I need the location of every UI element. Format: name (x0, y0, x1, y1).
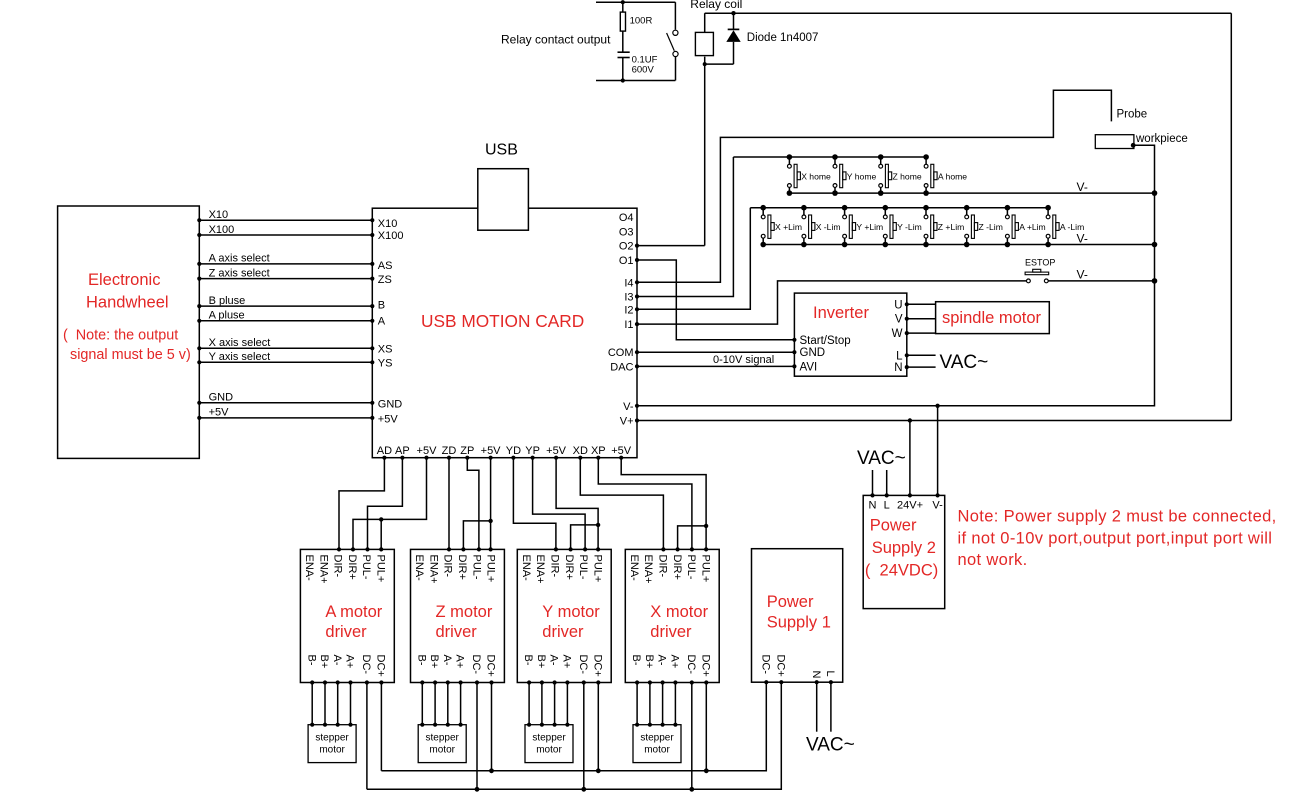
svg-text:O4: O4 (619, 212, 634, 224)
svg-text:X motor: X motor (650, 603, 708, 621)
svg-text:I4: I4 (624, 277, 633, 289)
svg-text:V-: V- (932, 500, 943, 512)
svg-text:Power: Power (767, 593, 814, 611)
svg-text:YS: YS (378, 357, 393, 369)
svg-text:DIR-: DIR- (657, 555, 669, 578)
svg-text:I1: I1 (624, 319, 633, 331)
svg-text:B-: B- (522, 655, 534, 666)
svg-text:+5V: +5V (546, 445, 567, 457)
svg-text:A-: A- (441, 655, 453, 666)
svg-text:+5V: +5V (209, 407, 230, 419)
svg-text:100R: 100R (630, 16, 653, 27)
svg-text:V+: V+ (620, 416, 634, 428)
svg-text:Relay coil: Relay coil (690, 0, 742, 11)
svg-text:motor: motor (319, 745, 345, 756)
svg-text:B-: B- (630, 655, 642, 666)
svg-text:Supply 1: Supply 1 (767, 614, 831, 632)
svg-text:VAC~: VAC~ (940, 352, 989, 373)
svg-text:driver: driver (436, 623, 478, 641)
svg-text:V: V (895, 314, 903, 326)
svg-text:ENA-: ENA- (628, 555, 640, 582)
svg-text:B+: B+ (643, 655, 655, 669)
svg-text:PUL-: PUL- (685, 555, 697, 580)
svg-text:( 24VDC): ( 24VDC) (865, 562, 938, 580)
svg-text:PUL-: PUL- (360, 555, 372, 580)
svg-text:motor: motor (429, 745, 455, 756)
svg-text:signal must be 5 v): signal must be 5 v) (70, 347, 191, 363)
svg-text:driver: driver (542, 623, 584, 641)
svg-text:V-: V- (1077, 268, 1088, 282)
svg-text:X10: X10 (378, 218, 398, 230)
svg-text:A-: A- (331, 655, 343, 666)
svg-text:V-: V- (1077, 232, 1088, 246)
svg-text:stepper: stepper (315, 733, 349, 744)
svg-text:A -Lim: A -Lim (1060, 222, 1084, 232)
svg-text:N: N (894, 362, 902, 374)
svg-text:XS: XS (378, 343, 393, 355)
svg-text:Z axis select: Z axis select (209, 267, 270, 279)
svg-text:B+: B+ (428, 655, 440, 669)
svg-text:X -Lim: X -Lim (816, 222, 841, 232)
svg-text:A+: A+ (344, 655, 356, 669)
svg-text:DAC: DAC (610, 361, 633, 373)
svg-text:USB: USB (485, 142, 518, 159)
svg-text:B+: B+ (318, 655, 330, 669)
svg-text:A+: A+ (454, 655, 466, 669)
svg-text:A+: A+ (561, 655, 573, 669)
svg-text:W: W (892, 328, 903, 340)
svg-text:V-: V- (623, 401, 634, 413)
svg-text:YD: YD (506, 445, 521, 457)
svg-text:A axis select: A axis select (209, 253, 270, 265)
svg-text:B pluse: B pluse (209, 295, 246, 307)
svg-text:ZP: ZP (460, 445, 474, 457)
svg-text:B-: B- (305, 655, 317, 666)
svg-text:O2: O2 (619, 241, 634, 253)
svg-text:600V: 600V (632, 65, 655, 76)
svg-text:L: L (824, 671, 836, 677)
svg-text:GND: GND (800, 347, 826, 359)
svg-text:ENA-: ENA- (413, 555, 425, 582)
svg-text:Electronic: Electronic (88, 271, 160, 289)
svg-text:Y home: Y home (847, 171, 877, 181)
svg-text:DIR-: DIR- (549, 555, 561, 578)
svg-text:O1: O1 (619, 255, 634, 267)
svg-text:PUL+: PUL+ (591, 555, 603, 583)
svg-text:I3: I3 (624, 292, 633, 304)
svg-text:Z -Lim: Z -Lim (979, 222, 1003, 232)
svg-text:Probe: Probe (1117, 109, 1148, 121)
svg-text:Inverter: Inverter (813, 304, 869, 322)
svg-text:ZD: ZD (442, 445, 457, 457)
svg-text:X +Lim: X +Lim (775, 222, 802, 232)
svg-text:PUL-: PUL- (577, 555, 589, 580)
svg-text:+5V: +5V (417, 445, 438, 457)
svg-text:DIR+: DIR+ (346, 555, 358, 580)
svg-text:Relay contact output: Relay contact output (501, 33, 611, 47)
svg-text:motor: motor (644, 745, 670, 756)
svg-text:DIR+: DIR+ (563, 555, 575, 580)
svg-text:AS: AS (378, 260, 393, 272)
svg-text:PUL+: PUL+ (699, 555, 711, 583)
svg-text:A-: A- (548, 655, 560, 666)
svg-text:X axis select: X axis select (209, 337, 271, 349)
svg-text:Z +Lim: Z +Lim (938, 222, 965, 232)
svg-text:X100: X100 (378, 230, 404, 242)
svg-text:I2: I2 (624, 304, 633, 316)
svg-text:DC+: DC+ (699, 655, 711, 677)
svg-text:DIR+: DIR+ (456, 555, 468, 580)
svg-text:A +Lim: A +Lim (1019, 222, 1046, 232)
svg-text:+5V: +5V (378, 414, 399, 426)
svg-text:DC+: DC+ (375, 655, 387, 677)
svg-text:ENA+: ENA+ (534, 555, 546, 584)
svg-text:ENA+: ENA+ (642, 555, 654, 584)
svg-text:ENA-: ENA- (303, 555, 315, 582)
svg-text:+5V: +5V (481, 445, 502, 457)
svg-text:Y axis select: Y axis select (209, 351, 271, 363)
svg-text:driver: driver (325, 623, 367, 641)
svg-text:XP: XP (591, 445, 606, 457)
svg-text:Y motor: Y motor (542, 603, 600, 621)
svg-text:X100: X100 (209, 224, 235, 236)
svg-text:ENA+: ENA+ (427, 555, 439, 584)
svg-text:U: U (894, 299, 902, 311)
svg-text:Y -Lim: Y -Lim (897, 222, 922, 232)
svg-text:ESTOP: ESTOP (1025, 258, 1055, 268)
svg-text:AP: AP (395, 445, 410, 457)
svg-text:Diode 1n4007: Diode 1n4007 (747, 32, 819, 44)
svg-text:+5V: +5V (611, 445, 632, 457)
svg-text:USB MOTION CARD: USB MOTION CARD (421, 311, 584, 331)
svg-text:N: N (810, 671, 822, 679)
svg-text:workpiece: workpiece (1135, 133, 1188, 145)
svg-text:DC+: DC+ (485, 655, 497, 677)
svg-text:A: A (378, 315, 386, 327)
svg-text:DIR-: DIR- (442, 555, 454, 578)
svg-text:Supply 2: Supply 2 (872, 539, 936, 557)
svg-text:XD: XD (573, 445, 588, 457)
svg-text:motor: motor (536, 745, 562, 756)
svg-text:AVI: AVI (800, 361, 818, 373)
svg-text:ENA+: ENA+ (317, 555, 329, 584)
svg-text:L: L (884, 500, 890, 512)
svg-text:spindle motor: spindle motor (942, 309, 1042, 327)
svg-text:stepper: stepper (640, 733, 674, 744)
svg-text:A-: A- (656, 655, 668, 666)
svg-text:Start/Stop: Start/Stop (800, 335, 851, 347)
svg-text:A+: A+ (669, 655, 681, 669)
svg-text:A motor: A motor (325, 603, 382, 621)
svg-text:COM: COM (608, 347, 634, 359)
svg-text:DC-: DC- (360, 655, 372, 675)
svg-text:X10: X10 (209, 209, 229, 221)
svg-text:driver: driver (650, 623, 692, 641)
svg-text:A home: A home (938, 171, 967, 181)
svg-text:B-: B- (415, 655, 427, 666)
svg-text:YP: YP (525, 445, 540, 457)
svg-text:( Note: the output: ( Note: the output (63, 328, 178, 344)
svg-text:DIR+: DIR+ (671, 555, 683, 580)
svg-text:24V+: 24V+ (897, 500, 923, 512)
svg-text:Handwheel: Handwheel (86, 294, 169, 312)
svg-text:not work.: not work. (958, 551, 1028, 569)
svg-text:DC-: DC- (470, 655, 482, 675)
svg-text:DIR-: DIR- (332, 555, 344, 578)
svg-text:ZS: ZS (378, 274, 392, 286)
svg-text:PUL+: PUL+ (485, 555, 497, 583)
svg-text:AD: AD (377, 445, 392, 457)
svg-text:Y +Lim: Y +Lim (856, 222, 883, 232)
svg-text:DC-: DC- (685, 655, 697, 675)
svg-text:VAC~: VAC~ (806, 735, 855, 756)
svg-text:DC-: DC- (577, 655, 589, 675)
svg-text:DC+: DC+ (591, 655, 603, 677)
svg-text:O3: O3 (619, 226, 634, 238)
svg-text:V-: V- (1077, 180, 1088, 194)
svg-text:B+: B+ (535, 655, 547, 669)
svg-text:stepper: stepper (426, 733, 460, 744)
svg-text:PUL+: PUL+ (375, 555, 387, 583)
svg-text:DC+: DC+ (774, 655, 786, 677)
svg-text:GND: GND (209, 392, 234, 404)
svg-text:L: L (896, 350, 903, 362)
svg-text:A pluse: A pluse (209, 310, 245, 322)
svg-text:N: N (869, 500, 877, 512)
svg-text:DC-: DC- (759, 655, 771, 675)
svg-text:Z home: Z home (893, 171, 922, 181)
svg-text:B: B (378, 300, 385, 312)
svg-text:Power: Power (870, 517, 917, 535)
svg-text:Note: Power supply 2 must be c: Note: Power supply 2 must be connected, (958, 508, 1277, 526)
svg-text:X home: X home (801, 171, 831, 181)
svg-text:if not 0-10v port,output port,: if not 0-10v port,output port,input port… (958, 529, 1273, 547)
svg-text:Z motor: Z motor (436, 603, 493, 621)
svg-text:PUL-: PUL- (470, 555, 482, 580)
svg-text:GND: GND (378, 399, 403, 411)
svg-text:ENA-: ENA- (520, 555, 532, 582)
svg-text:stepper: stepper (532, 733, 566, 744)
svg-text:VAC~: VAC~ (857, 448, 906, 469)
svg-text:0-10V signal: 0-10V signal (713, 354, 774, 366)
